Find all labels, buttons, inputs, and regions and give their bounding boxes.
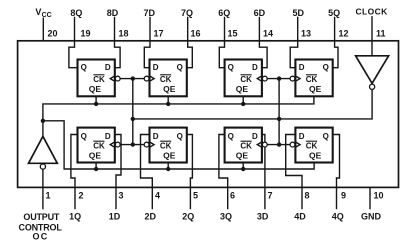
label VCC pin 20 [35,7,51,19]
svg-text:Q: Q [323,63,329,72]
svg-text:D: D [105,63,111,72]
svg-text:6: 6 [230,190,235,200]
svg-text:2D: 2D [145,211,157,221]
svg-text:D: D [299,132,305,141]
svg-text:20: 20 [48,28,58,38]
svg-text:19: 19 [81,28,91,38]
wire FF3 QE drop [242,96,244,104]
svg-text:7D: 7D [144,8,156,18]
FLIP-FLOP BOXES inserted here [78,60,333,163]
node bottom chain right junction [277,142,281,146]
PINS-TOP [43,17,372,56]
wire pin12 to FF4 Q [333,18,338,68]
label 1Q [69,211,81,221]
svg-text:7Q: 7Q [181,8,193,18]
node top bus FF2 junction [166,102,170,106]
svg-text:QE: QE [309,150,322,160]
svg-text:D: D [153,132,159,141]
wire pin5 to FF6 Q [187,135,193,209]
svg-text:CLOCK: CLOCK [355,7,388,17]
node top bus FF3 junction [241,102,245,106]
node bottom rail FF5 junction [94,167,98,171]
flip-flop FF3 (6Q/6D) [225,60,268,97]
label 7D [144,8,156,18]
wire pin15 to FF3 Q [219,18,224,68]
svg-text:CK: CK [306,75,318,84]
svg-text:2Q: 2Q [182,211,194,221]
svg-text:4Q: 4Q [332,211,344,221]
label 4D [294,211,306,221]
svg-text:QE: QE [163,84,176,94]
svg-text:OC: OC [33,232,49,242]
svg-text:CK: CK [93,75,105,84]
svg-text:1D: 1D [109,211,121,221]
svg-text:3Q: 3Q [220,211,232,221]
IC outline border [18,41,399,188]
node top chain right junction [277,76,281,80]
svg-text:Q: Q [177,132,183,141]
wire pin7 to FF7 D [262,135,265,209]
svg-text:CK: CK [240,75,252,84]
wire FF2 QE drop [167,96,169,104]
inverter output control (pin 1) [29,136,58,163]
wire bottom CK chain right pair [267,144,290,146]
svg-text:QE: QE [309,84,322,94]
label 3D [257,211,269,221]
wire pin6 to FF7 Q [219,135,228,209]
svg-text:CK: CK [160,75,172,84]
pin 10 GND stub [369,187,371,208]
wire pin3 to FF5 D [115,135,121,209]
node top bus FF1 junction [94,102,98,106]
svg-text:4: 4 [155,190,160,200]
wire FF7 QE drop [242,163,244,170]
svg-text:14: 14 [263,28,273,38]
label 8Q [70,8,82,18]
node OC rail junction [41,119,45,123]
label 2Q [182,211,194,221]
svg-text:1Q: 1Q [69,211,81,221]
svg-text:QE: QE [89,150,102,160]
flip-flop FF6 (2D/2Q) [144,128,187,163]
svg-text:12: 12 [339,28,349,38]
svg-text:D: D [252,132,258,141]
wire pin2 to FF5 Q [71,135,78,209]
flip-flop FF4 (5D/5Q) [290,60,333,97]
flip-flop FF2 (7D/7Q) [144,60,187,97]
svg-text:CC: CC [42,12,52,19]
flip-flop FF7 (3Q/3D) [225,128,268,163]
node top chain left junction [131,76,135,80]
wire OC inverter to top enable bus [43,96,314,136]
svg-text:16: 16 [191,28,201,38]
svg-text:3: 3 [119,190,124,200]
JUNCTION DOTS [41,76,282,171]
PINS-BOTTOM [43,169,370,208]
wire pin17 to FF2 D [144,18,150,68]
wire clock inverter output to clock rail [133,89,372,119]
svg-text:10: 10 [374,190,384,200]
wire top CK chain right pair [267,78,290,80]
label 5D [292,8,304,18]
svg-text:Q: Q [228,132,234,141]
svg-text:15: 15 [228,28,238,38]
svg-text:Q: Q [323,132,329,141]
wire pin14 to FF3 D [259,18,267,68]
svg-text:OUTPUT: OUTPUT [23,212,60,222]
label 5Q [328,8,340,18]
svg-text:CK: CK [306,141,318,150]
node bottom rail FF6 junction [166,167,170,171]
svg-text:6D: 6D [254,8,266,18]
wire FF5 QE drop [95,163,97,170]
svg-text:D: D [105,132,111,141]
label 1D [109,211,121,221]
svg-text:11: 11 [376,28,386,38]
svg-text:QE: QE [236,150,249,160]
svg-text:V: V [35,7,41,17]
flip-flop FF1 (8Q/8D) [78,60,121,97]
svg-text:D: D [153,63,159,72]
svg-text:5D: 5D [292,8,304,18]
node clock rail right junction [277,117,281,121]
svg-text:GND: GND [361,211,382,221]
wire pin9 to FF8 Q [333,135,340,209]
label 8D [107,8,119,18]
svg-text:7: 7 [268,190,273,200]
svg-text:CK: CK [160,141,172,150]
svg-text:13: 13 [301,28,311,38]
svg-text:QE: QE [163,150,176,160]
svg-text:Q: Q [228,63,234,72]
svg-text:D: D [299,63,305,72]
svg-text:Q: Q [81,63,87,72]
node clock rail left junction [131,117,135,121]
wire pin19 to FF1 Q [69,18,78,68]
svg-text:Q: Q [81,132,87,141]
wire pin13 to FF4 D [290,18,298,68]
wire OC branch to bottom enable rail [43,121,314,169]
svg-text:4D: 4D [294,211,306,221]
label 6Q [218,8,230,18]
svg-text:9: 9 [341,190,346,200]
wire top CK chain left pair [120,78,144,80]
svg-text:8: 8 [305,190,310,200]
wire clock drop right pair [278,79,280,145]
svg-text:5: 5 [193,190,198,200]
label GND [361,211,382,221]
svg-text:8D: 8D [107,8,119,18]
svg-text:QE: QE [89,84,102,94]
label 6D [254,8,266,18]
label 3Q [220,211,232,221]
svg-text:Q: Q [177,63,183,72]
label 4Q [332,211,344,221]
svg-text:6Q: 6Q [218,8,230,18]
inverter clock (pin 11) [356,56,389,84]
svg-text:CK: CK [240,141,252,150]
label CLOCK pin 11 [355,7,388,17]
wire pin4 to FF6 D [141,135,153,209]
wire FF6 QE drop [167,163,169,170]
svg-text:3D: 3D [257,211,269,221]
wire pin16 to FF2 Q [187,18,193,68]
svg-text:18: 18 [119,28,129,38]
label 7Q [181,8,193,18]
svg-text:CK: CK [93,141,105,150]
flip-flop FF5 (1Q/1D) [78,128,121,163]
wire pin18 to FF1 D [115,18,121,68]
wire pin8 to FF8 D [286,135,302,209]
svg-text:D: D [252,63,258,72]
svg-text:8Q: 8Q [70,8,82,18]
wire clock drop left pair [132,79,134,145]
INVERTERS [29,56,389,169]
svg-text:5Q: 5Q [328,8,340,18]
pin 11 CLOCK stub [371,17,373,56]
wire bottom CK chain left pair [120,144,144,146]
label 2D [145,211,157,221]
node bottom chain left junction [131,142,135,146]
svg-text:1: 1 [46,190,51,200]
svg-text:QE: QE [236,84,249,94]
label OUTPUT CONTROL OC pin 1 [19,212,63,242]
pin 20 VCC stub [42,18,44,41]
flip-flop FF8 (4D/4Q) [290,128,333,163]
pin 1 OC stub [42,169,44,208]
node bottom rail FF7 junction [241,167,245,171]
svg-text:2: 2 [79,190,84,200]
svg-text:17: 17 [154,28,164,38]
wire FF1 QE drop [95,96,97,104]
